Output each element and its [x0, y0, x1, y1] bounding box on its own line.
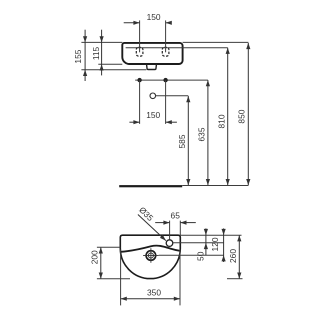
- svg-text:150: 150: [147, 12, 161, 22]
- svg-text:155: 155: [73, 49, 83, 63]
- svg-text:810: 810: [216, 114, 226, 128]
- svg-text:120: 120: [210, 237, 220, 251]
- svg-text:635: 635: [196, 127, 206, 141]
- svg-text:260: 260: [228, 249, 238, 263]
- svg-text:200: 200: [89, 250, 99, 264]
- svg-text:850: 850: [236, 109, 246, 123]
- svg-text:65: 65: [171, 211, 181, 221]
- svg-text:115: 115: [91, 46, 101, 60]
- svg-text:150: 150: [146, 110, 160, 120]
- svg-text:Ø35: Ø35: [137, 205, 156, 224]
- svg-text:50: 50: [195, 251, 205, 261]
- svg-text:350: 350: [147, 288, 161, 298]
- svg-text:585: 585: [177, 134, 187, 148]
